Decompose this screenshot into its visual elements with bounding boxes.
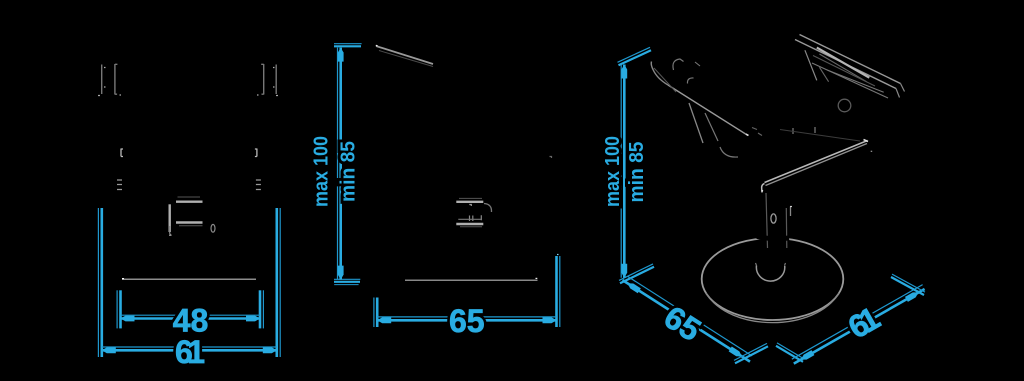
svg-text:min 85: min 85 <box>338 141 360 202</box>
hook mark right <box>255 149 257 157</box>
dim 48 extension left <box>119 290 122 328</box>
left leg 1 <box>689 103 703 143</box>
center hook: vertical bar <box>168 204 170 232</box>
iso dim 61 end tick <box>891 277 924 295</box>
inner grommet arc <box>756 266 784 282</box>
steep mark q2 small <box>819 67 828 82</box>
inner thin rail <box>812 63 888 98</box>
svg-text:65: 65 <box>449 303 485 339</box>
center hook: knob ellipse <box>211 224 215 232</box>
small marks near rail end <box>752 128 762 136</box>
svg-text:max 100: max 100 <box>602 136 624 207</box>
dashes right <box>256 180 261 190</box>
center hook: foot <box>170 226 172 235</box>
vert dim ticks top <box>334 45 361 47</box>
hook side: arc <box>484 204 492 213</box>
screen diagonal echo <box>379 51 433 67</box>
inner bright rail <box>817 48 870 78</box>
top-left hook 1 <box>673 59 684 70</box>
bracket rail left-outer <box>101 65 103 95</box>
iso dim 65 line <box>623 280 751 362</box>
hook side: dot <box>469 205 471 207</box>
top-left S-curve edge <box>651 62 668 86</box>
bracket left dots <box>98 68 121 96</box>
swivel oval <box>771 214 776 223</box>
dim 65 arrows <box>377 317 391 323</box>
dim 65 extension right <box>555 256 558 327</box>
svg-text:61: 61 <box>175 334 205 370</box>
iso dim 61 start tick <box>776 346 803 362</box>
shallow inner rail <box>827 70 884 92</box>
center hook: top bar <box>176 200 203 202</box>
small bowl arc <box>720 147 738 157</box>
tilt knob circle <box>838 99 851 112</box>
base bottom rim <box>706 293 839 323</box>
dim 61 extension left <box>101 208 104 357</box>
dim 61 extension right <box>275 208 278 357</box>
dim 61 line <box>102 349 277 352</box>
dim 65 extension left <box>376 298 379 328</box>
center hook: faint under line <box>179 225 203 227</box>
vert dim ticks bottom <box>334 281 360 283</box>
hook side: top bar <box>456 201 483 203</box>
arm end tip <box>864 140 869 142</box>
top-back rail lower <box>795 40 896 89</box>
floor line <box>405 279 538 281</box>
specks <box>793 127 815 134</box>
bracket right dots <box>257 68 278 96</box>
center hook: faint top line <box>178 196 201 198</box>
iso vert dim tick bottom (shared with 65 start) <box>620 267 654 284</box>
dim 65 line <box>377 319 556 322</box>
svg-text:min 85: min 85 <box>626 142 648 203</box>
top-back rail upper <box>800 35 901 84</box>
base ellipse <box>702 238 844 320</box>
dim 48 arrows <box>121 316 135 322</box>
screen diagonal line <box>376 46 433 64</box>
top-left hook 2 <box>687 78 693 84</box>
hook side: faint bottom <box>460 226 482 228</box>
bracket rail right-inner <box>261 64 264 95</box>
iso vert arrows <box>621 65 627 79</box>
center hook: mid bar <box>176 221 203 223</box>
vert dim line <box>339 48 342 280</box>
dashes left <box>117 180 122 190</box>
hook side: faint top <box>459 197 482 199</box>
steep mark q2 <box>805 50 817 80</box>
left diagonal rail (a) <box>668 85 748 136</box>
hook mark left <box>121 149 123 157</box>
hook side: bottom bar <box>456 223 483 225</box>
bracket rail right-outer <box>275 65 277 95</box>
iso dim 65 end tick <box>735 346 768 363</box>
vert dim arrows <box>338 48 344 62</box>
small speck right <box>550 157 552 159</box>
left view dimensions (cyan) <box>98 208 280 357</box>
iso vert dim line <box>623 65 626 278</box>
dim 48 line <box>121 317 261 320</box>
hook side: inner line <box>458 218 481 220</box>
bracket rail left-inner <box>115 64 118 95</box>
dim 61 arrows <box>102 347 116 353</box>
iso dim 65 arrows <box>626 281 641 293</box>
iso vert dim tick top <box>619 50 652 65</box>
column faint edges <box>766 193 787 248</box>
svg-text:max 100: max 100 <box>311 136 333 207</box>
hook side: tab details <box>470 215 482 221</box>
rail end cap <box>896 84 905 98</box>
support arm (doubled) <box>765 141 868 183</box>
iso dim 61 line <box>794 289 925 364</box>
base ellipse top gap (erase) <box>757 237 789 239</box>
iso dim 61 arrows <box>799 350 814 362</box>
left leg 2 <box>705 113 718 141</box>
arm elbow <box>762 184 765 193</box>
inner rail echo <box>819 54 866 82</box>
swivel bar <box>790 207 792 217</box>
dim 48 extension right <box>259 290 262 328</box>
base front edge <box>122 278 256 280</box>
